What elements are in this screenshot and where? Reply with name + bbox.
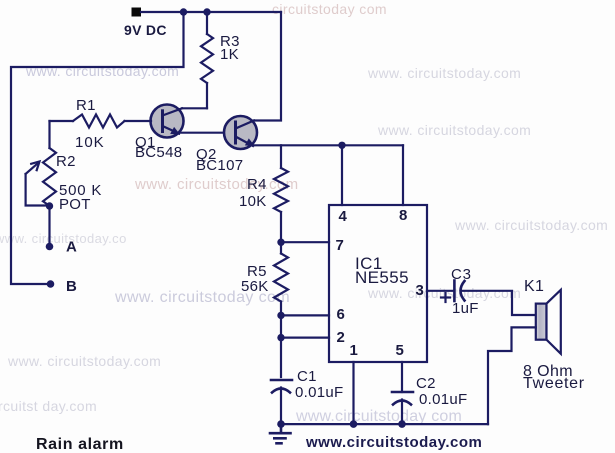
- svg-text:1uF: 1uF: [452, 300, 479, 317]
- speaker K1: [536, 290, 561, 354]
- transistor Q2: [224, 116, 257, 149]
- svg-text:www. circuitstoday.co: www. circuitstoday.co: [0, 231, 127, 246]
- svg-text:www. circuitstoday.com: www. circuitstoday.com: [377, 122, 531, 138]
- wire: +9V top rail: [141, 11, 281, 13]
- svg-text:5: 5: [396, 342, 404, 359]
- svg-text:B: B: [66, 278, 77, 295]
- svg-text:Rain alarm: Rain alarm: [36, 436, 124, 453]
- svg-text:R4: R4: [247, 176, 267, 193]
- junction: pin2/C1 node: [277, 334, 284, 341]
- svg-text:www. circuitstoday.com: www. circuitstoday.com: [367, 65, 521, 81]
- resistor R3: [206, 12, 208, 34]
- wire: node to IC pin 7: [281, 241, 329, 243]
- resistor R1: [50, 120, 74, 122]
- transistor Q1: [151, 105, 184, 138]
- ground: [270, 424, 291, 443]
- svg-text:A: A: [66, 239, 77, 256]
- svg-text:POT: POT: [59, 196, 91, 213]
- wire: Q1 emitter to Q2 base: [179, 132, 236, 134]
- resistor R4: [280, 145, 282, 168]
- svg-text:2: 2: [337, 329, 345, 346]
- svg-text:R1: R1: [76, 97, 96, 114]
- svg-text:BC548: BC548: [135, 144, 182, 161]
- junction: ground node: [277, 420, 285, 428]
- svg-text:6: 6: [337, 306, 345, 323]
- junction: R5/pin6 node: [277, 312, 284, 319]
- resistor R5: [280, 242, 282, 253]
- wire: Q2 collector to +9V rail: [254, 12, 281, 121]
- svg-text:K1: K1: [524, 278, 544, 295]
- junction: top rail / R3: [203, 8, 210, 15]
- svg-text:NE555: NE555: [355, 268, 409, 287]
- wire: sensor feed from +9V rail to node B: [11, 12, 184, 284]
- svg-text:0.01uF: 0.01uF: [419, 391, 468, 408]
- wire: Q2 emitter rail: [254, 144, 403, 146]
- wire: ground rail: [281, 423, 488, 425]
- svg-text:4: 4: [339, 208, 348, 225]
- polarity + of C3: [441, 293, 450, 302]
- svg-text:BC107: BC107: [196, 157, 243, 174]
- potentiometer R2: [26, 121, 56, 210]
- svg-text:www. circuitstoday.com: www. circuitstoday.com: [7, 353, 161, 369]
- 9V DC supply terminal: [132, 8, 142, 17]
- junction: top rail / sensor feed: [180, 8, 187, 15]
- svg-text:56K: 56K: [241, 278, 269, 295]
- svg-text:www. circuitstoday.com: www. circuitstoday.com: [454, 217, 608, 233]
- wire: C3 to speaker plus terminal: [462, 291, 536, 315]
- junction: R4/R5/pin7 node: [277, 239, 284, 246]
- svg-text:www.circuitst day.com: www.circuitst day.com: [0, 398, 97, 414]
- wire: IC pin 5 to C2: [401, 362, 403, 392]
- node B: [47, 280, 55, 288]
- svg-text:C2: C2: [416, 375, 436, 392]
- svg-text:Tweeter: Tweeter: [523, 375, 585, 392]
- svg-text:C1: C1: [297, 368, 317, 385]
- svg-text:1K: 1K: [220, 46, 239, 63]
- wire: pin2 node to C1: [280, 338, 282, 377]
- IC IC1 NE555 body: [329, 205, 427, 362]
- wire: speaker return to ground rail: [488, 327, 536, 424]
- svg-text:www. circuitstoday.com: www. circuitstoday.com: [25, 63, 179, 79]
- junction: C2/ground rail: [398, 420, 406, 428]
- wire: node to IC pin 6: [281, 314, 329, 316]
- junction: pin1/ground rail: [350, 420, 358, 428]
- capacitor C2: [392, 392, 413, 405]
- svg-text:8: 8: [399, 207, 407, 224]
- wire: C1 to ground rail: [280, 388, 282, 425]
- svg-text:0.01uF: 0.01uF: [295, 384, 344, 401]
- svg-text:1: 1: [350, 342, 358, 359]
- svg-text:9V DC: 9V DC: [124, 22, 167, 38]
- wire: IC pin 1 to ground rail: [352, 362, 354, 424]
- wire: to IC pin 8: [402, 145, 404, 205]
- svg-text:circuitstoday com: circuitstoday com: [272, 1, 387, 17]
- wire: C2 to ground rail: [401, 400, 403, 425]
- wire: IC pin 3 to C3: [427, 290, 454, 292]
- svg-text:www.circuitstoday com: www.circuitstoday com: [295, 408, 462, 425]
- svg-text:7: 7: [336, 237, 344, 254]
- junction: emitter rail / pin4 drop: [338, 142, 345, 149]
- capacitor C3: [454, 281, 464, 302]
- wire: node to IC pin 2: [281, 337, 329, 339]
- wire: R2 to node A: [48, 206, 50, 247]
- svg-text:www.circuitstoday.com: www.circuitstoday.com: [305, 434, 482, 451]
- node A: [46, 243, 54, 251]
- wire: R3 to Q1 collector: [182, 107, 207, 109]
- svg-text:R2: R2: [56, 153, 76, 170]
- wire: to IC pin 4: [341, 145, 343, 205]
- svg-text:C3: C3: [451, 266, 472, 283]
- capacitor C1: [271, 380, 292, 393]
- svg-text:3: 3: [416, 282, 424, 299]
- svg-text:10K: 10K: [239, 193, 267, 210]
- svg-text:10K: 10K: [75, 134, 105, 151]
- wire: pin6 node to pin2 node: [280, 315, 282, 337]
